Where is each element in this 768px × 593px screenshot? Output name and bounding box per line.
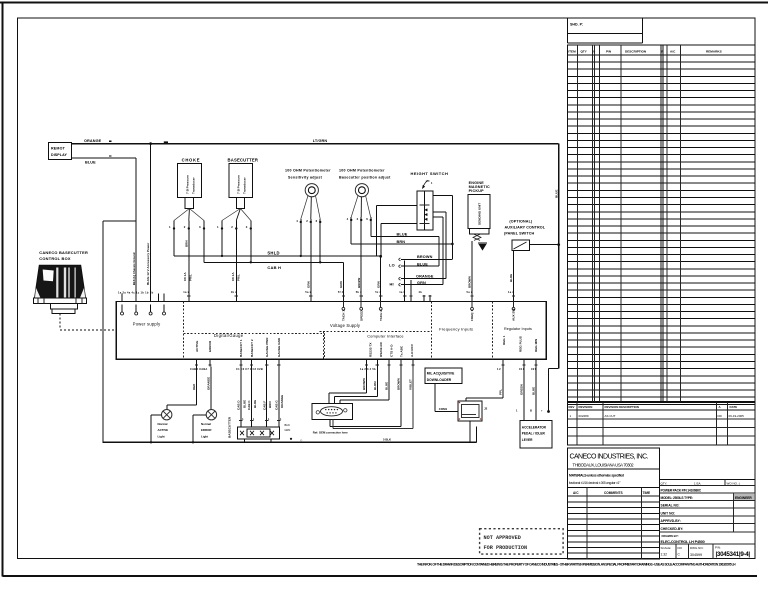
svg-text:BLUE: BLUE [532, 387, 536, 395]
svg-text:FOR PRODUCTION: FOR PRODUCTION [484, 545, 528, 551]
wire pot2 terminals [339, 217, 380, 295]
svg-text:LT/GRN: LT/GRN [313, 139, 328, 143]
svg-text:UNIT NO:: UNIT NO: [661, 511, 676, 515]
svg-text:ORANGE: ORANGE [280, 395, 284, 408]
svg-text:RS232-RX: RS232-RX [379, 341, 383, 357]
wires height switch right nest [433, 195, 453, 284]
svg-text:BLUE: BLUE [397, 232, 408, 236]
svg-text:(PANEL SWITCH: (PANEL SWITCH [504, 232, 534, 236]
svg-text:SENDING UNIT: SENDING UNIT [478, 203, 482, 225]
svg-text:BRN: BRN [397, 240, 406, 244]
svg-text:CONTROL BOX: CONTROL BOX [39, 256, 71, 261]
svg-text:ACCELERATOR: ACCELERATOR [522, 426, 547, 430]
bottom pins computer [360, 359, 415, 371]
wire ppl to com [466, 367, 503, 402]
remote display [49, 143, 72, 160]
wire control box pigtail dashed [60, 313, 117, 329]
svg-text:P/N:: P/N: [715, 546, 721, 550]
svg-text:Digital/Gauge: Digital/Gauge [214, 333, 244, 338]
svg-text:ITEM: ITEM [568, 49, 576, 53]
svg-text:304599: 304599 [690, 553, 702, 557]
wire aux to right bus [529, 243, 560, 246]
svg-text:DISPLAY: DISPLAY [51, 153, 67, 157]
twisted pair lo [389, 255, 452, 295]
svg-text:REMARKS: REMARKS [706, 49, 722, 53]
svg-text:PICKUP: PICKUP [469, 189, 484, 193]
svg-text:APPRVD-BY:: APPRVD-BY: [661, 519, 681, 523]
svg-text:GAUGE GND: GAUGE GND [277, 337, 281, 357]
svg-text:Normal: Normal [158, 422, 168, 426]
svg-text:1a 2 3 4 5b: 1a 2 3 4 5b [360, 367, 376, 371]
svg-text:HI: HI [390, 282, 394, 287]
svg-text:BRN: BRN [185, 241, 189, 248]
svg-text:Power supply: Power supply [133, 322, 161, 327]
svg-text:DATE: DATE [730, 405, 738, 409]
svg-text:BROWN: BROWN [362, 378, 366, 390]
svg-text:CAB C: CAB C [247, 400, 251, 410]
svg-text:SHLD: SHLD [267, 251, 279, 256]
svg-text:BASECUT 1: BASECUT 1 [239, 339, 243, 357]
svg-text:Computer Interface: Computer Interface [367, 333, 404, 338]
svg-text:Light: Light [201, 434, 208, 438]
svg-text:Tx ABC: Tx ABC [400, 345, 404, 357]
svg-text:TACH 2: TACH 2 [379, 310, 383, 321]
svg-text:MODEL: 2500LS TYPE:: MODEL: 2500LS TYPE: [661, 496, 693, 500]
svg-text:ORANGE: ORANGE [84, 139, 102, 143]
svg-text:CANECO BASECUTTER: CANECO BASECUTTER [39, 250, 88, 255]
wire right vertical [547, 144, 559, 413]
svg-text:GRN: GRN [306, 281, 310, 288]
svg-text:PPL: PPL [499, 389, 503, 395]
svg-text:Voltage Supply: Voltage Supply [330, 323, 361, 328]
svg-text:THE INFOR. OF THE DRAWN DESCRI: THE INFOR. OF THE DRAWN DESCRIPTION CONT… [417, 563, 736, 567]
svg-text:Normal: Normal [201, 422, 211, 426]
svg-text:REV: REV [569, 405, 575, 409]
svg-text:QTY:: QTY: [661, 481, 668, 485]
svg-text:Ref: OEM connection here: Ref: OEM connection here [313, 431, 348, 435]
terminal strip main box [116, 302, 546, 360]
svg-text:|3045341|9-4|: |3045341|9-4| [716, 551, 751, 558]
svg-text:FREQ 1: FREQ 1 [470, 310, 474, 321]
svg-text:LEVER: LEVER [522, 438, 533, 442]
wire lamp error feed [206, 367, 210, 410]
svg-text:Frequency Inputs: Frequency Inputs [439, 327, 473, 332]
svg-text:1a 2: 1a 2 [183, 290, 189, 294]
svg-text:DRAWN BY:: DRAWN BY: [662, 534, 679, 538]
digital section labels [195, 337, 281, 357]
svg-text:7 B Pressure: 7 B Pressure [237, 175, 241, 194]
mil downloader box [425, 368, 462, 411]
svg-text:C1 C2 C7 1 C3 C2B: C1 C2 C7 1 C3 C2B [236, 367, 263, 371]
svg-text:fractional ±1/16 decimal ±.: fractional ±1/16 decimal ±.005 angular ±… [569, 481, 621, 485]
svg-text:4b: 4b [419, 290, 423, 294]
svg-text:CTS A-D: CTS A-D [389, 344, 393, 357]
disclaimer text [417, 563, 736, 567]
svg-text:BLUE: BLUE [509, 274, 513, 282]
svg-text:BLUE: BLUE [385, 382, 389, 390]
svg-text:HEIGHT SWITCH: HEIGHT SWITCH [411, 171, 449, 176]
svg-text:A/C: A/C [573, 491, 579, 495]
svg-text:DO: DO [678, 546, 683, 550]
wire lamp active feed [167, 367, 197, 410]
wire pot1 terminals [296, 219, 321, 295]
wire basecutter transducer terminals [217, 221, 252, 296]
svg-text:MATERIALS-unless otherwise spe: MATERIALS-unless otherwise specified [569, 473, 624, 477]
wire com to ground bus [470, 421, 476, 442]
wire shield bus [174, 251, 382, 295]
svg-text:REMOT: REMOT [51, 147, 66, 151]
svg-text:CAB G: CAB G [274, 400, 278, 410]
ground terminal block [228, 367, 293, 443]
svg-text:Light: Light [158, 434, 165, 438]
wire blue remote display [72, 156, 137, 295]
svg-text:BLUE: BLUE [555, 190, 559, 198]
svg-text:CAB F: CAB F [262, 401, 266, 410]
svg-text:DESCRIPTION: DESCRIPTION [625, 49, 647, 53]
not approved stamp [480, 529, 563, 554]
svg-text:ERROR: ERROR [208, 340, 212, 352]
svg-text:5f 4: 5f 4 [338, 290, 344, 294]
ground symbol engine [478, 243, 487, 250]
wire orange top bus [72, 139, 559, 145]
svg-text:TIME: TIME [643, 491, 651, 495]
engine sending unit [468, 181, 490, 295]
svg-text:BLUM: BLUM [373, 381, 377, 390]
svg-text:BRN: BRN [268, 402, 272, 409]
svg-text:REVISION: REVISION [579, 405, 593, 409]
svg-text:C6 1A: C6 1A [183, 272, 187, 281]
wire remote ground branch [103, 221, 136, 442]
svg-text:CABD CABA: CABD CABA [190, 367, 208, 371]
svg-text:REG PLUS: REG PLUS [519, 336, 523, 352]
svg-text:REG 1: REG 1 [502, 335, 506, 345]
svg-text:PR/L: PR/L [237, 274, 241, 281]
wire bottom ground bus [103, 438, 477, 443]
tolerance note box [568, 469, 660, 488]
potentiometer basecutter position [339, 169, 391, 218]
svg-text:BROWN: BROWN [417, 255, 433, 259]
svg-text:J2: J2 [484, 407, 488, 411]
svg-text:QTY: QTY [581, 49, 588, 53]
svg-text:CHECKED-BY:: CHECKED-BY: [661, 527, 684, 531]
svg-text:ORANGE: ORANGE [416, 275, 434, 279]
svg-text:CHOKE: CHOKE [182, 158, 201, 163]
svg-text:5 BLK: 5 BLK [383, 438, 391, 442]
comments table [568, 488, 660, 559]
svg-text:C6 1A: C6 1A [231, 272, 235, 281]
svg-text:ELEC-CONTROL LH P4500: ELEC-CONTROL LH P4500 [661, 540, 705, 544]
svg-text:COM1: COM1 [439, 407, 448, 411]
wire aux blue [509, 274, 513, 282]
accelerator pedal box [516, 367, 552, 448]
svg-text:Basecutter position adjust: Basecutter position adjust [339, 176, 391, 180]
svg-text:GRN: GRN [339, 281, 343, 288]
db9 computer connector [312, 403, 353, 434]
terminal strip section dividers [184, 302, 493, 360]
svg-text:Sensitivity adjust: Sensitivity adjust [288, 176, 323, 180]
svg-text:BROWN: BROWN [468, 276, 472, 288]
svg-text:BASECUT 2: BASECUT 2 [250, 339, 254, 357]
title block company box [568, 448, 660, 469]
svg-text:BRN/W: BRN/W [357, 278, 361, 288]
lamp error [201, 410, 217, 439]
svg-text:ACTIVE: ACTIVE [158, 428, 169, 432]
svg-text:B: B [530, 409, 532, 413]
svg-text:ORANGE: ORANGE [206, 377, 210, 390]
top terminal pins mid [183, 290, 515, 321]
svg-text:Transducer: Transducer [243, 177, 247, 194]
com1 connector [439, 401, 488, 421]
svg-text:SHD. P:: SHD. P: [570, 23, 583, 27]
svg-text:RED: RED [192, 383, 196, 390]
pressure transducer basecutter [222, 158, 258, 221]
pressure transducer choke [174, 158, 204, 221]
wires db9 to strip [329, 367, 413, 429]
svg-text:SERIAL NO:: SERIAL NO: [661, 504, 680, 508]
wire choke terminals [169, 221, 205, 296]
wire lamp active return [150, 415, 162, 443]
power supply pins [118, 290, 166, 315]
bottom pins regulator [497, 359, 538, 371]
svg-text:AS CUT: AS CUT [605, 414, 616, 418]
svg-text:BLUE: BLUE [85, 161, 96, 165]
svg-text:ERROR: ERROR [201, 428, 212, 432]
svg-text:MIL ACQUISITIVE: MIL ACQUISITIVE [427, 372, 455, 376]
svg-text:BLK/: BLK/ [285, 423, 291, 427]
svg-text:5c 2: 5c 2 [375, 290, 381, 294]
sheet number box [568, 18, 643, 43]
svg-text:COMMENTS: COMMENTS [604, 491, 623, 495]
svg-text:Transducer: Transducer [192, 177, 196, 194]
svg-text:REVISION DESCRIPTION: REVISION DESCRIPTION [605, 405, 639, 409]
wire engine brown [468, 276, 472, 288]
svg-text:SCALE:: SCALE: [661, 546, 672, 550]
svg-text:1 2: 1 2 [497, 367, 501, 371]
svg-text:CAB D: CAB D [237, 400, 241, 410]
svg-text:LO: LO [389, 262, 395, 267]
svg-text:100 OHM Potentiometer: 100 OHM Potentiometer [339, 169, 385, 173]
svg-text:09-19-2005: 09-19-2005 [729, 414, 745, 418]
terminal strip section labels [133, 322, 532, 339]
aux control switch [504, 220, 546, 296]
height switch [411, 171, 449, 230]
svg-text:BASECUTTER: BASECUTTER [228, 158, 259, 163]
wire pot2 blue [371, 217, 439, 266]
wire pot2 brown [351, 217, 454, 245]
svg-text:7 B Pressure: 7 B Pressure [186, 175, 190, 194]
svg-text:1a 6: 1a 6 [399, 290, 405, 294]
svg-text:REG MIN: REG MIN [534, 338, 538, 352]
svg-text:BLUE: BLUE [417, 262, 428, 266]
svg-text:100 OHM Potentiometer: 100 OHM Potentiometer [285, 169, 331, 173]
computer interface labels [369, 341, 415, 357]
svg-text:(OPTIONAL): (OPTIONAL) [509, 220, 533, 224]
wire 12V accessory [146, 142, 152, 295]
svg-text:SPEED: SPEED [359, 310, 363, 321]
svg-text:BLUE 12 V Accessory Power: BLUE 12 V Accessory Power [146, 242, 150, 285]
svg-text:PEDAL / IDLER: PEDAL / IDLER [522, 432, 546, 436]
svg-text:POWER PACK P/N 1410686C: POWER PACK P/N 1410686C [661, 489, 702, 493]
svg-text:CAB H: CAB H [267, 265, 281, 270]
svg-text:GREEN: GREEN [520, 384, 524, 395]
svg-text:AUX SW: AUX SW [512, 309, 516, 321]
svg-text:RS232-TX: RS232-TX [369, 342, 373, 357]
svg-text:A-D RCV: A-D RCV [410, 343, 414, 357]
svg-text:BLUE: BLUE [242, 400, 246, 408]
svg-text:5b 2: 5b 2 [356, 290, 362, 294]
svg-text:TACH 1: TACH 1 [342, 310, 346, 321]
svg-text:ACTIVE: ACTIVE [195, 341, 199, 352]
svg-text:DWG NO:: DWG NO: [690, 546, 704, 550]
svg-text:GRN: GRN [417, 281, 426, 285]
svg-text:ENGINEER: ENGINEER [735, 496, 752, 500]
svg-text:P/N: P/N [606, 49, 612, 53]
svg-text:A/C: A/C [670, 49, 676, 53]
potentiometer sensitivity [285, 169, 331, 220]
lamp active [158, 410, 172, 439]
svg-text:5a 2: 5a 2 [305, 290, 311, 294]
svg-text:VIOLET: VIOLET [409, 379, 413, 390]
svg-text:Regulator Inputs: Regulator Inputs [504, 327, 532, 331]
svg-text:1a 2: 1a 2 [508, 290, 514, 294]
wire cab h bus [204, 261, 344, 295]
svg-text:BLK (L) Chassis Ground: BLK (L) Chassis Ground [132, 252, 136, 285]
svg-text:AUXILIARY CONTROL: AUXILIARY CONTROL [505, 226, 546, 230]
title fields block [659, 480, 755, 559]
svg-text:DOWNLOADER: DOWNLOADER [427, 378, 452, 382]
wires height switch left [377, 205, 417, 256]
svg-text:1:32: 1:32 [661, 553, 668, 557]
regulator section labels [502, 335, 538, 352]
svg-text:NOT APPROVED: NOT APPROVED [484, 535, 521, 541]
basecutter control box [33, 250, 88, 313]
wire lamp error return [192, 415, 206, 443]
svg-text:002289: 002289 [579, 414, 589, 418]
svg-text:1 EA.: 1 EA. [694, 481, 702, 485]
twisted pair hi [390, 275, 447, 295]
svg-text:THIBODAUX, LOUISIANA USA 703: THIBODAUX, LOUISIANA USA 70302 [573, 462, 635, 467]
svg-text:CANECO INDUSTRIES, INC.: CANECO INDUSTRIES, INC. [570, 454, 649, 461]
svg-text:BLUE: BLUE [253, 400, 257, 408]
svg-text:GRN: GRN [285, 428, 291, 432]
parts list table [568, 45, 756, 404]
svg-text:5a 2: 5a 2 [467, 290, 473, 294]
revision history table [568, 403, 756, 445]
svg-text:1b 2: 1b 2 [231, 290, 237, 294]
svg-text:PR/L: PR/L [189, 274, 193, 281]
svg-text:BASECUTTER: BASECUTTER [228, 416, 232, 438]
svg-text:BROWN: BROWN [397, 378, 401, 390]
svg-text:GRN: GRN [376, 281, 380, 288]
svg-text:WO NO.: |: WO NO.: | [727, 481, 741, 485]
svg-text:GAUGE PWR: GAUGE PWR [265, 337, 269, 357]
bottom pins left [190, 359, 280, 371]
